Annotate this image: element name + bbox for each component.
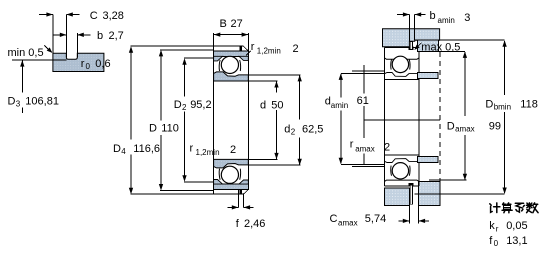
- svg-text:D: D: [485, 98, 493, 110]
- dimension b 2,7: [53, 30, 124, 42]
- dimension C_amax 5,74: [330, 206, 430, 228]
- svg-text:D: D: [113, 143, 121, 155]
- svg-text:2,46: 2,46: [244, 218, 265, 230]
- svg-text:amax: amax: [355, 145, 375, 154]
- svg-text:110: 110: [161, 123, 179, 135]
- D_bmin bottom extension line: [415, 193, 505, 195]
- outer ring bottom section: [214, 180, 249, 190]
- dimension d 50 extension lines: [248, 81, 277, 159]
- dimension D_amax 99: [447, 51, 501, 180]
- svg-text:r: r: [496, 224, 499, 233]
- D_amax bottom extension line: [429, 179, 467, 181]
- bearing snap-ring groove bottom: [409, 183, 414, 186]
- outer ring inner surface bottom: [384, 180, 419, 182]
- svg-text:2: 2: [293, 43, 299, 55]
- svg-text:1,2min: 1,2min: [196, 148, 220, 157]
- svg-text:116,6: 116,6: [133, 143, 160, 155]
- bearing snap-ring groove top: [409, 46, 414, 49]
- svg-text:r: r: [251, 41, 255, 53]
- dimension D2 95,2: [174, 58, 212, 182]
- svg-text:99: 99: [489, 120, 501, 132]
- svg-text:d: d: [284, 123, 290, 135]
- ring section with snap-ring groove: [53, 53, 104, 71]
- dimension D 110: [149, 50, 179, 191]
- svg-text:0,05: 0,05: [506, 220, 527, 232]
- housing bore hidden edge (dashed): [439, 52, 441, 182]
- svg-text:13,1: 13,1: [506, 235, 527, 247]
- bearing outline right figure: [384, 47, 419, 186]
- dimension B 27: [214, 18, 249, 51]
- dimension D2 95,2 extension lines: [184, 58, 214, 182]
- label max 0,5 with leader: [414, 42, 460, 54]
- outer ring inner surface top: [384, 58, 419, 60]
- label r1,2min 2 (top right): [246, 41, 298, 56]
- svg-text:95,2: 95,2: [190, 99, 211, 111]
- label r1,2min 2 (left): [190, 142, 237, 157]
- svg-text:3: 3: [16, 100, 21, 109]
- svg-text:2: 2: [182, 103, 187, 112]
- inner ring top section: [214, 72, 249, 81]
- svg-text:4: 4: [121, 147, 126, 156]
- svg-text:2: 2: [230, 144, 236, 156]
- svg-text:D: D: [447, 120, 455, 132]
- snap ring groove slot (bottom): [239, 190, 242, 195]
- svg-text:2: 2: [384, 142, 390, 154]
- svg-text:r: r: [81, 58, 85, 70]
- svg-text:amin: amin: [331, 101, 348, 110]
- housing bottom right block: [418, 182, 440, 206]
- svg-text:0: 0: [494, 239, 499, 248]
- svg-text:D: D: [8, 95, 16, 107]
- svg-text:amax: amax: [338, 218, 358, 227]
- d_amin top extension lines: [341, 71, 385, 73]
- dimension D3 106,81: [8, 60, 59, 113]
- svg-text:0: 0: [86, 62, 91, 71]
- r0 0,6 label: [81, 58, 111, 71]
- housing recess wall right of bearing: [418, 40, 439, 51]
- char ji: [490, 204, 491, 205]
- D_bmin top extension line: [415, 39, 505, 41]
- svg-text:bmin: bmin: [494, 103, 511, 112]
- svg-text:b: b: [430, 10, 436, 22]
- ball top right figure: [392, 56, 408, 72]
- svg-text:B: B: [220, 18, 227, 30]
- svg-text:b: b: [97, 30, 103, 42]
- char suan: [503, 203, 511, 205]
- svg-text:d: d: [260, 99, 266, 111]
- min 0,5 label with leader: [8, 45, 53, 59]
- ball bottom right figure: [392, 163, 408, 179]
- svg-text:r: r: [190, 142, 194, 154]
- svg-text:61: 61: [357, 95, 369, 107]
- dimension d_amin 61: [325, 73, 369, 164]
- inner ring bottom section: [214, 159, 249, 168]
- ball bottom: [221, 166, 238, 183]
- label r_amax 2: [350, 138, 390, 153]
- shaft abutment top right: [418, 73, 438, 79]
- ball top: [221, 56, 238, 73]
- axis line right figure: [364, 119, 440, 121]
- svg-text:k: k: [489, 220, 495, 232]
- dimension d2 62,5 extension lines: [248, 75, 300, 165]
- snap ring top: [410, 41, 412, 49]
- D_amax top extension line: [420, 50, 465, 52]
- inner ring bottom section: [384, 155, 419, 162]
- snap ring bottom: [410, 185, 412, 204]
- D4 phantom lines (snap ring OD level): [130, 46, 243, 194]
- snap ring groove slot (top): [239, 46, 242, 51]
- cage hooks top: [391, 60, 410, 70]
- svg-text:r: r: [350, 138, 354, 150]
- dimension C 3,28: [39, 10, 124, 22]
- svg-text:amax: amax: [455, 125, 475, 134]
- svg-text:3,28: 3,28: [103, 10, 124, 22]
- svg-text:2: 2: [291, 128, 296, 137]
- char shu: [528, 203, 530, 208]
- svg-text:50: 50: [271, 99, 283, 111]
- cage bottom: [219, 169, 240, 180]
- kr / f0 values: [489, 220, 527, 248]
- inner ring top section: [384, 73, 419, 80]
- svg-text:27: 27: [231, 18, 243, 30]
- dimension f 2,46: [228, 190, 266, 231]
- svg-text:5,74: 5,74: [365, 213, 386, 225]
- secondary vertical line: [363, 65, 365, 164]
- d_amin bottom extension lines: [341, 164, 385, 166]
- svg-text:1,2min: 1,2min: [257, 47, 281, 56]
- groove slot walls extended up: [53, 15, 77, 58]
- dimension D4 116,6: [113, 46, 160, 194]
- cage top: [219, 60, 240, 71]
- housing top block: [383, 29, 440, 47]
- char xi: [515, 202, 523, 204]
- bearing face lines: [214, 46, 249, 194]
- dimension D_bmin 118: [485, 40, 537, 194]
- svg-text:C: C: [90, 10, 98, 22]
- cage hooks bottom: [391, 166, 410, 176]
- housing bottom left block: [384, 188, 409, 206]
- svg-text:amin: amin: [438, 16, 455, 25]
- svg-text:3: 3: [464, 12, 470, 24]
- outer ring top section: [214, 51, 249, 61]
- svg-text:C: C: [330, 213, 338, 225]
- svg-text:D: D: [149, 123, 157, 135]
- dimension d 50: [260, 81, 284, 159]
- svg-text:118: 118: [520, 98, 538, 110]
- svg-text:0,6: 0,6: [95, 58, 110, 70]
- svg-text:D: D: [174, 99, 182, 111]
- svg-text:min 0,5: min 0,5: [8, 47, 44, 59]
- svg-text:62,5: 62,5: [302, 123, 323, 135]
- dimension d2 62,5: [284, 75, 323, 165]
- svg-text:2,7: 2,7: [109, 30, 124, 42]
- svg-text:106,81: 106,81: [25, 95, 59, 107]
- groove bottom reference line: [12, 59, 66, 61]
- shaft abutment bottom right: [418, 157, 438, 163]
- dimension b_amin 3: [397, 10, 470, 41]
- OD (D) extension lines: [160, 50, 214, 191]
- calculation factors heading (计算系数 drawn as paths): [490, 203, 538, 213]
